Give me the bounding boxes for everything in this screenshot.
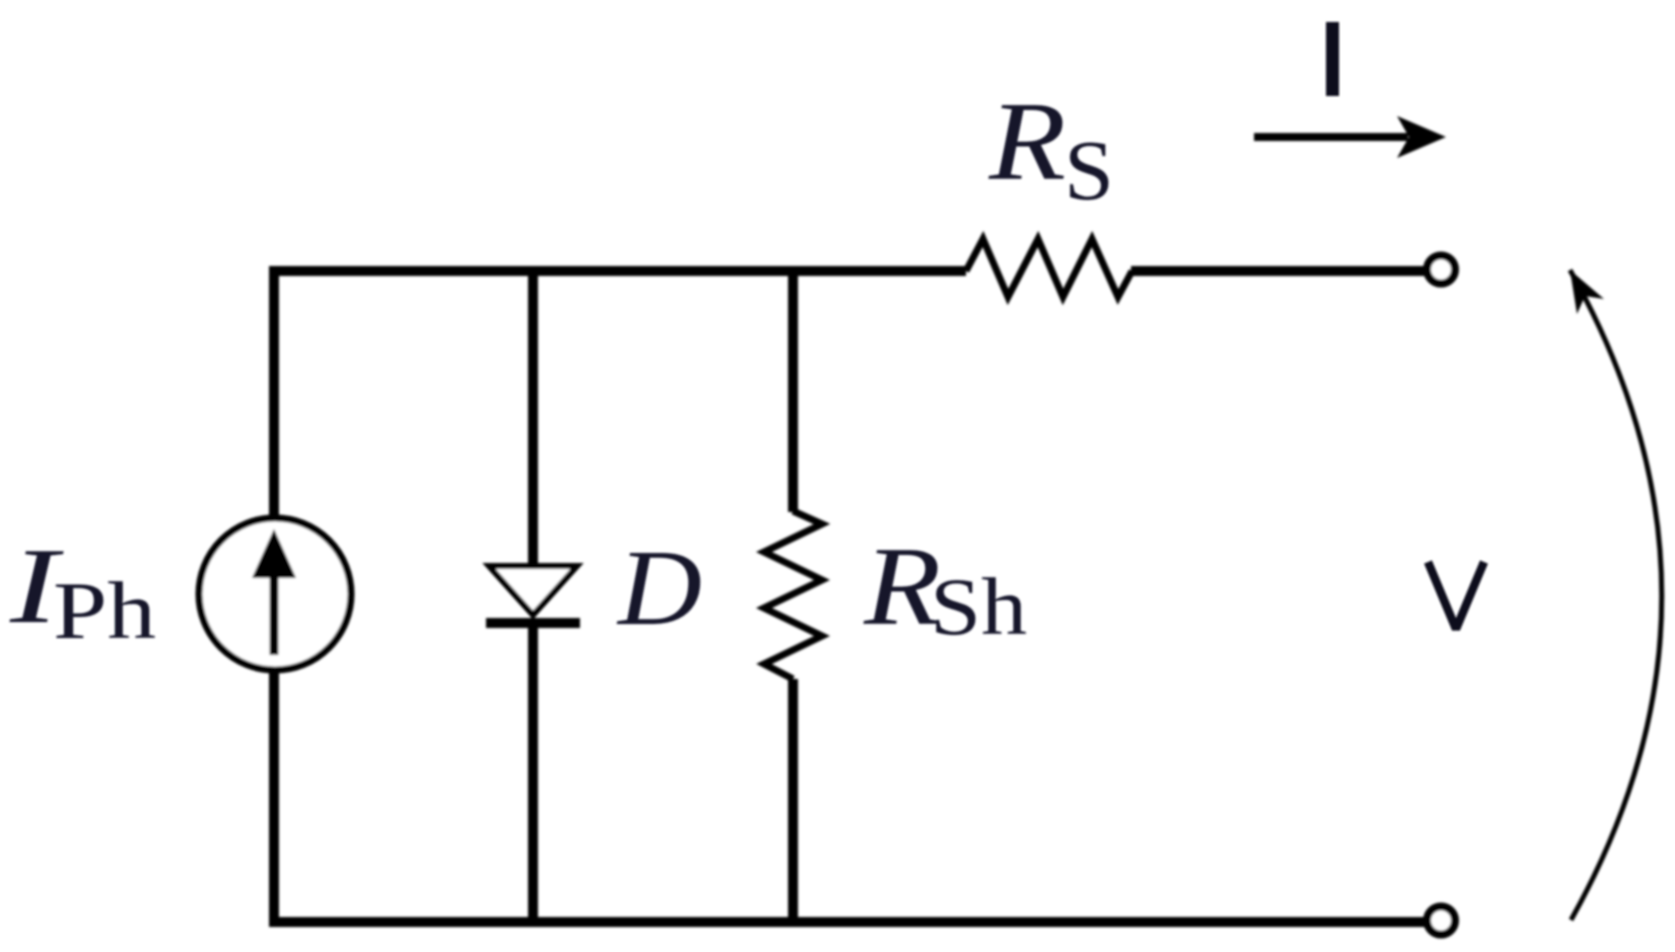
resistor R_Sh zigzag bbox=[764, 511, 822, 679]
V curved arrowhead bbox=[1570, 270, 1604, 314]
wire left vertical upper (top wire to source) bbox=[269, 271, 279, 520]
svg-text:S: S bbox=[1064, 122, 1114, 218]
V measurement curved arrow bbox=[1570, 270, 1662, 920]
svg-text:R: R bbox=[988, 80, 1066, 204]
wire top right (Rs to terminal) bbox=[1131, 266, 1428, 276]
wire left vertical lower (source to bottom wire) bbox=[269, 668, 279, 922]
diode D cathode bar bbox=[486, 618, 580, 628]
svg-text:D: D bbox=[616, 529, 702, 648]
label I (top right) bbox=[1326, 22, 1339, 96]
terminal bottom (open circle) bbox=[1427, 907, 1455, 935]
svg-text:Ph: Ph bbox=[53, 565, 156, 656]
wire diode branch lower bbox=[528, 624, 538, 922]
wire shunt branch lower bbox=[788, 679, 798, 922]
svg-text:Sh: Sh bbox=[930, 561, 1027, 652]
wire diode branch upper bbox=[528, 271, 538, 566]
resistor R_S zigzag bbox=[966, 239, 1132, 297]
label V bbox=[1428, 562, 1484, 629]
current I arrow (top right) bbox=[1254, 133, 1408, 141]
wire bottom horizontal bbox=[269, 917, 1428, 927]
current source arrowhead bbox=[252, 529, 296, 578]
wire shunt branch upper bbox=[788, 271, 798, 512]
diode D triangle bbox=[489, 566, 577, 615]
current source I_Ph (circle) bbox=[199, 518, 351, 670]
current source arrow shaft bbox=[270, 565, 279, 655]
terminal top (open circle) bbox=[1427, 256, 1455, 284]
wire top horizontal (node A to Rs) bbox=[269, 266, 966, 276]
